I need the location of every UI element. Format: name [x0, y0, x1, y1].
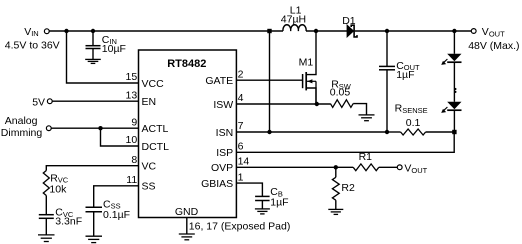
svg-text:ISN: ISN [216, 127, 234, 139]
ground R2 [328, 209, 343, 214]
svg-text:8: 8 [131, 154, 137, 166]
wire M1 bulk-source [315, 81, 317, 104]
terminal VOUT [471, 29, 476, 34]
wire CIN to ground [92, 49, 94, 60]
svg-text:ACTL: ACTL [142, 123, 169, 135]
svg-text:48V (Max.): 48V (Max.) [468, 40, 519, 52]
junction COUT [385, 29, 389, 33]
ground CIN [85, 59, 101, 63]
wire R2 to ground [335, 200, 337, 209]
ground GND pin [179, 234, 195, 240]
junction CIN [91, 29, 95, 33]
wire RSW to ground [353, 104, 366, 115]
junction ISW-M1 source [315, 102, 319, 106]
wire M1 drain [306, 31, 316, 75]
wire CB to ground [261, 201, 263, 209]
svg-text:9: 9 [131, 116, 137, 128]
svg-text:6: 6 [238, 141, 244, 153]
LED string continuation dots [454, 88, 456, 90]
svg-text:10: 10 [126, 134, 138, 146]
ground CB [255, 209, 270, 214]
junction RSENSE-LED [452, 130, 456, 134]
wire COUT bottom [386, 70, 388, 132]
svg-text:0.05: 0.05 [330, 87, 351, 99]
wire ISP [236, 132, 454, 152]
svg-text:Dimming: Dimming [1, 127, 43, 139]
svg-text:ISW: ISW [213, 99, 233, 111]
capacitor CSS [86, 207, 103, 212]
LED D2 cathode bar [447, 61, 461, 63]
resistor RSENSE [401, 129, 426, 135]
svg-text:11: 11 [126, 174, 137, 186]
capacitor CIN [86, 46, 101, 49]
svg-text:GBIAS: GBIAS [201, 178, 233, 190]
junction R2 [334, 165, 338, 169]
capacitor COUT [379, 66, 395, 69]
svg-text:R2: R2 [341, 182, 355, 194]
wire LED string bottom [453, 110, 455, 132]
svg-text:DCTL: DCTL [142, 141, 170, 153]
wire top rail VIN to L1 [49, 30, 283, 32]
terminal VIN [44, 29, 49, 34]
wire VCC route [67, 31, 139, 83]
wire CIN top [92, 31, 94, 45]
svg-text:13: 13 [126, 89, 138, 101]
terminal 5V [47, 99, 52, 104]
wire RSENSE right [426, 131, 455, 133]
svg-text:0.1µF: 0.1µF [103, 209, 130, 221]
resistor R1 [353, 164, 379, 171]
wire COUT top [386, 31, 388, 66]
resistor RVC [43, 171, 49, 196]
ground CVC [38, 235, 55, 242]
junction ISN-COUT-RSENSE node [385, 130, 389, 134]
svg-text:OVP: OVP [211, 162, 233, 174]
terminal VOUT sense [397, 165, 402, 170]
inductor L1 [283, 25, 306, 31]
transistor M1 gate bar [302, 74, 304, 88]
wire R2 top [335, 167, 337, 177]
svg-text:RT8482: RT8482 [167, 58, 206, 70]
svg-text:16, 17 (Exposed Pad): 16, 17 (Exposed Pad) [189, 221, 291, 233]
LED D2 [447, 54, 461, 62]
svg-text:14: 14 [238, 156, 250, 168]
junction VIN-VCC [64, 29, 68, 33]
wire EN [52, 100, 138, 102]
svg-text:D1: D1 [342, 15, 356, 27]
svg-text:VCC: VCC [142, 78, 165, 90]
terminal Analog Dimming [46, 126, 51, 131]
resistor R2 [332, 177, 339, 200]
IC U1 RT8482 body [139, 50, 237, 218]
wire ISN riser [269, 31, 271, 132]
svg-text:47µH: 47µH [281, 13, 306, 25]
capacitor CB [255, 196, 270, 200]
wire LED string top [453, 31, 455, 54]
LED D3 cathode bar [447, 109, 461, 111]
LED D3 [447, 102, 461, 110]
svg-text:15: 15 [126, 71, 138, 83]
svg-text:SS: SS [142, 181, 156, 193]
wire CVC to ground [45, 218, 47, 234]
svg-text:1µF: 1µF [270, 197, 288, 209]
LED D2 emission arrow [443, 59, 447, 63]
ground RSW [359, 115, 375, 121]
wire DCTL route [101, 128, 139, 146]
junction L1 input / ISN riser [267, 29, 271, 33]
svg-text:EN: EN [142, 96, 157, 108]
svg-text:2: 2 [238, 68, 244, 80]
svg-text:5V: 5V [32, 96, 45, 108]
transistor M1 bulk arrow [307, 80, 316, 82]
wire ACTL [51, 127, 138, 129]
wire GATE [236, 79, 302, 81]
wire VC route [46, 166, 138, 171]
wire ISW [236, 103, 330, 105]
svg-text:0.1: 0.1 [406, 117, 421, 129]
wire RSENSE left [387, 131, 401, 133]
wire R1 to VOUT2 [379, 166, 397, 168]
svg-text:3.3nF: 3.3nF [55, 216, 82, 228]
svg-text:GATE: GATE [205, 75, 233, 87]
capacitor CVC [39, 215, 54, 219]
wire OVP [236, 166, 353, 168]
wire LED string middle [453, 62, 455, 102]
junction ISN riser [267, 130, 271, 134]
wire L1 to D1 [306, 30, 347, 32]
svg-text:10k: 10k [49, 183, 67, 195]
wire ISN [236, 131, 387, 133]
wire GBIAS [236, 183, 262, 196]
svg-text:M1: M1 [299, 57, 314, 69]
wire CSS to ground [93, 212, 95, 236]
svg-text:ISP: ISP [216, 147, 233, 159]
diode D1 [347, 25, 354, 37]
svg-text:VC: VC [142, 161, 157, 173]
diode D1 cathode bar [351, 25, 357, 37]
wire RVC to CVC [45, 196, 47, 215]
svg-text:1: 1 [238, 171, 244, 183]
junction ACTL-DCTL [98, 126, 102, 130]
svg-text:4: 4 [238, 92, 244, 104]
svg-text:R1: R1 [359, 151, 373, 163]
wire M1 source [306, 88, 316, 104]
LED D3 emission arrow [443, 107, 447, 111]
wire GND stub [186, 218, 188, 234]
wire SS route [94, 186, 139, 207]
wire D1 to VOUT terminal [355, 30, 472, 32]
svg-text:1µF: 1µF [396, 69, 414, 81]
junction LED string [452, 29, 456, 33]
transistor M1 channel bar [305, 72, 307, 90]
svg-text:GND: GND [175, 206, 199, 218]
ground CSS [86, 236, 103, 242]
svg-text:10µF: 10µF [102, 43, 126, 55]
svg-text:Analog: Analog [5, 115, 38, 127]
svg-text:7: 7 [238, 120, 244, 132]
svg-text:4.5V to 36V: 4.5V to 36V [5, 40, 60, 52]
junction switch node M1 drain [314, 29, 318, 33]
resistor RSW [330, 100, 353, 108]
